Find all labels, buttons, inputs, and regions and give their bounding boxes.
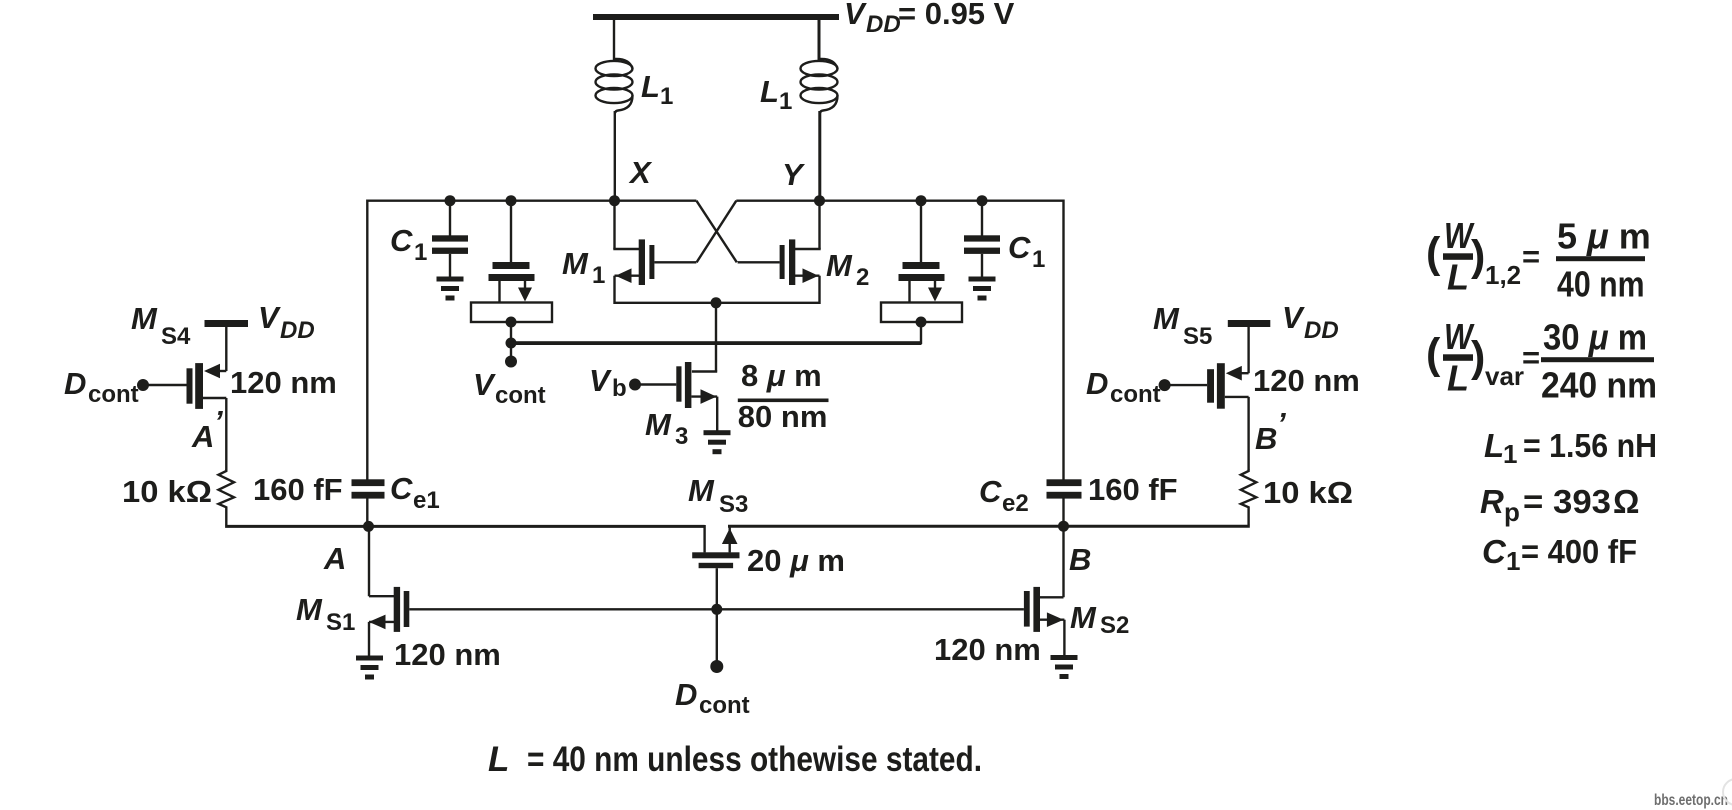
svg-text:8 μ m: 8 μ m xyxy=(741,358,822,393)
wire L1 left to node X xyxy=(614,111,616,200)
svg-text:): ) xyxy=(1471,232,1485,280)
svg-text:M: M xyxy=(688,473,715,508)
resistor 10k right xyxy=(1241,470,1257,526)
wire left border vertical (upper) xyxy=(366,200,368,481)
svg-text:B: B xyxy=(1069,542,1091,577)
svg-text:1: 1 xyxy=(414,239,427,266)
svg-text:cont: cont xyxy=(495,382,546,409)
svg-text:M: M xyxy=(826,248,853,283)
terminal dot Vb xyxy=(629,379,641,391)
svg-text:1: 1 xyxy=(1506,546,1520,576)
svg-text:V: V xyxy=(473,367,496,402)
svg-text:C: C xyxy=(390,223,413,258)
annotation Rp = 393 Ohm xyxy=(1480,483,1639,527)
svg-text:’: ’ xyxy=(1277,406,1286,441)
svg-text:): ) xyxy=(1471,333,1485,381)
svg-text:120 nm: 120 nm xyxy=(230,365,337,400)
label C1 right xyxy=(1008,230,1045,273)
svg-text:20 μ m: 20 μ m xyxy=(747,543,845,578)
svg-text:1,2: 1,2 xyxy=(1485,260,1521,290)
svg-text:bbs.eetop.cn: bbs.eetop.cn xyxy=(1654,792,1728,809)
svg-text:C: C xyxy=(979,474,1002,509)
power rail VDD xyxy=(593,14,839,20)
svg-text:=: = xyxy=(1522,340,1540,375)
label M1 xyxy=(562,246,605,289)
svg-text:1: 1 xyxy=(1503,439,1517,469)
junction dot Vcont wire xyxy=(506,338,517,349)
ground MS2 xyxy=(1051,655,1078,679)
wire varactor left to Vcont wire xyxy=(510,322,512,343)
label VDD MS4 xyxy=(258,300,315,344)
ground MS1 xyxy=(356,656,383,680)
wire node A to MS3 drain xyxy=(369,525,705,528)
wire common source of M1 M2 xyxy=(615,302,820,304)
wire Vcont stub xyxy=(510,343,512,357)
terminal dot Vcont xyxy=(505,356,517,368)
varactor right xyxy=(881,200,962,322)
svg-text:M: M xyxy=(1070,600,1097,635)
capacitor C1 left xyxy=(432,200,468,277)
wire resistor right to node B xyxy=(1064,525,1250,528)
svg-text:M: M xyxy=(562,246,589,281)
watermark circle fragment xyxy=(1723,779,1732,805)
wire cross-couple X to M2 gate xyxy=(696,201,736,263)
svg-text:V: V xyxy=(589,363,612,398)
svg-text:M: M xyxy=(296,592,323,627)
svg-text:D: D xyxy=(675,677,697,712)
svg-text:L: L xyxy=(1447,358,1469,399)
svg-text:var: var xyxy=(1485,361,1524,391)
svg-text:DD: DD xyxy=(1304,317,1339,344)
annotation W/L var equation xyxy=(1426,316,1657,406)
wire resistor left to node A xyxy=(225,525,369,528)
svg-text:=: = xyxy=(1522,239,1540,274)
svg-text:L: L xyxy=(1484,427,1504,464)
wire cross-couple Y to M1 gate xyxy=(697,201,737,263)
junction dot tail node xyxy=(711,297,722,308)
svg-text:120 nm: 120 nm xyxy=(934,632,1041,667)
label Vcont xyxy=(473,367,546,409)
wire Vcont horizontal (thick) xyxy=(510,341,922,345)
label MS4 xyxy=(131,301,191,350)
svg-text:S1: S1 xyxy=(326,609,355,636)
svg-text:1: 1 xyxy=(1032,246,1045,273)
svg-text:DD: DD xyxy=(866,11,901,38)
transistor M1 xyxy=(613,200,696,304)
transistor MS2 xyxy=(1024,526,1065,655)
svg-text:L: L xyxy=(488,740,509,779)
svg-text:’: ’ xyxy=(214,404,223,439)
inductor L1 left xyxy=(596,59,633,113)
svg-text:D: D xyxy=(64,366,86,401)
svg-text:2: 2 xyxy=(856,264,869,291)
svg-text:80 nm: 80 nm xyxy=(738,399,828,434)
label node B' xyxy=(1255,406,1286,456)
wire MS3 gate to Dcont terminal xyxy=(716,609,718,662)
svg-text:S3: S3 xyxy=(719,491,748,518)
svg-text:S2: S2 xyxy=(1100,612,1129,639)
svg-text:M: M xyxy=(131,301,158,336)
svg-text:(: ( xyxy=(1426,229,1441,277)
svg-text:V: V xyxy=(1282,300,1305,335)
label Ce1 xyxy=(390,471,440,514)
svg-text:160 fF: 160 fF xyxy=(253,472,343,507)
wire tail node to M3 drain xyxy=(715,303,717,372)
svg-text:S4: S4 xyxy=(161,323,191,350)
svg-text:10 kΩ: 10 kΩ xyxy=(1263,475,1353,510)
svg-text:1: 1 xyxy=(779,88,792,115)
svg-text:160 fF: 160 fF xyxy=(1088,472,1178,507)
svg-text:Y: Y xyxy=(782,157,806,192)
caption xyxy=(488,740,982,779)
svg-text:e1: e1 xyxy=(413,487,440,514)
varactor left xyxy=(471,200,552,322)
label VDD MS5 xyxy=(1282,300,1339,344)
node B junction dot xyxy=(1058,521,1069,532)
svg-text:C: C xyxy=(390,471,413,506)
svg-text:cont: cont xyxy=(88,381,139,408)
svg-text:= 1.56 nH: = 1.56 nH xyxy=(1523,427,1657,464)
ground C1 left xyxy=(437,277,464,301)
terminal dot Dcont MS5 xyxy=(1159,379,1171,391)
svg-text:L: L xyxy=(641,69,660,104)
svg-text:(: ( xyxy=(1426,330,1441,378)
svg-text:B: B xyxy=(1255,421,1277,456)
node X junction dot xyxy=(609,195,620,206)
wire L1 right to node Y xyxy=(818,111,821,200)
node Y junction dot xyxy=(814,195,825,206)
svg-text:p: p xyxy=(1504,497,1520,527)
wire left border vertical (lower) xyxy=(366,499,368,528)
label Dcont bottom xyxy=(675,677,750,719)
svg-text:= 40 nm unless othewise stated: = 40 nm unless othewise stated. xyxy=(527,740,982,779)
label M2 xyxy=(826,248,869,291)
wire tank rail right segment xyxy=(736,199,1063,201)
svg-text:240 nm: 240 nm xyxy=(1541,365,1657,406)
svg-text:1: 1 xyxy=(592,262,605,289)
svg-text:V: V xyxy=(844,0,867,31)
label Vb xyxy=(589,363,627,402)
svg-text:= 400 fF: = 400 fF xyxy=(1521,533,1637,570)
svg-text:X: X xyxy=(628,155,653,190)
junction dot C1 right xyxy=(977,195,988,206)
capacitor Ce1 xyxy=(352,479,385,498)
ground M3 xyxy=(704,430,731,454)
label L1 right xyxy=(760,74,792,115)
label MS1 xyxy=(296,592,355,636)
svg-text:C: C xyxy=(1008,230,1031,265)
wire varactor right to Vcont wire xyxy=(920,322,922,344)
node A junction dot xyxy=(363,521,374,532)
label MS3 xyxy=(688,473,748,518)
label 8 um / 80 nm xyxy=(738,358,829,434)
terminal dot Dcont bottom xyxy=(710,660,723,673)
junction dot C1 left xyxy=(445,195,456,206)
label VDD = 0.95 V xyxy=(844,0,1015,38)
label C1 left xyxy=(390,223,427,266)
transistor M2 xyxy=(738,200,821,304)
svg-text:10 kΩ: 10 kΩ xyxy=(122,474,212,509)
capacitor Ce2 xyxy=(1047,479,1082,498)
svg-text:Ω: Ω xyxy=(1613,483,1639,520)
wire right border vertical (lower) xyxy=(1062,499,1064,528)
inductor L1 right xyxy=(801,59,838,113)
label MS5 xyxy=(1153,301,1212,350)
junction dot MS3 gate xyxy=(711,604,722,615)
svg-text:e2: e2 xyxy=(1002,490,1029,517)
label node A' xyxy=(191,404,223,454)
svg-text:b: b xyxy=(612,375,627,402)
wire VDD rail to L1 right xyxy=(818,19,821,61)
svg-text:L: L xyxy=(1447,257,1469,298)
junction dot varactor left top xyxy=(506,195,517,206)
label Dcont MS4 xyxy=(64,366,139,408)
transistor MS5 (PMOS) xyxy=(1165,320,1271,470)
svg-text:1: 1 xyxy=(660,83,673,110)
terminal dot Dcont MS4 xyxy=(137,379,149,391)
label L1 left xyxy=(641,69,673,110)
svg-text:D: D xyxy=(1086,366,1108,401)
svg-text:cont: cont xyxy=(1110,381,1161,408)
annotation W/L 1,2 equation xyxy=(1426,215,1651,305)
svg-text:3: 3 xyxy=(675,423,688,450)
transistor MS3 (lateral) xyxy=(692,525,739,609)
annotation C1 = 400 fF xyxy=(1482,533,1637,576)
wire tank rail left segment xyxy=(367,199,696,201)
svg-text:120 nm: 120 nm xyxy=(1253,363,1360,398)
svg-text:V: V xyxy=(258,300,281,335)
wire right border vertical (upper) xyxy=(1062,200,1064,481)
wire MS3 source to node B xyxy=(728,525,1064,528)
svg-text:M: M xyxy=(1153,301,1180,336)
junction dot varactor right bottom xyxy=(916,317,927,328)
svg-text:30 μ m: 30 μ m xyxy=(1543,317,1647,358)
svg-text:= 393: = 393 xyxy=(1523,483,1611,520)
svg-text:= 0.95 V: = 0.95 V xyxy=(898,0,1015,31)
junction dot varactor right top xyxy=(916,195,927,206)
label Ce2 xyxy=(979,474,1029,517)
wire Dcont gate bus xyxy=(409,608,1024,610)
svg-text:5 μ m: 5 μ m xyxy=(1557,216,1651,257)
svg-text:A: A xyxy=(191,419,214,454)
label M3 xyxy=(645,407,688,450)
annotation L1 = 1.56 nH xyxy=(1484,427,1657,469)
transistor M3 xyxy=(635,362,717,431)
svg-text:40 nm: 40 nm xyxy=(1557,264,1645,305)
svg-text:DD: DD xyxy=(280,317,315,344)
svg-text:R: R xyxy=(1480,483,1504,520)
transistor MS4 (PMOS) xyxy=(143,320,248,470)
junction dot varactor left bottom xyxy=(506,317,517,328)
transistor MS1 xyxy=(369,526,410,656)
svg-text:120 nm: 120 nm xyxy=(394,637,501,672)
svg-text:L: L xyxy=(760,74,779,109)
resistor 10k left xyxy=(219,470,235,526)
capacitor C1 right xyxy=(964,200,1000,277)
svg-text:C: C xyxy=(1482,533,1507,570)
ground C1 right xyxy=(969,277,996,301)
label Dcont MS5 xyxy=(1086,366,1161,408)
svg-text:A: A xyxy=(323,541,346,576)
label MS2 xyxy=(1070,600,1129,639)
wire VDD rail to L1 left xyxy=(613,19,615,61)
svg-text:S5: S5 xyxy=(1183,323,1212,350)
svg-text:cont: cont xyxy=(699,692,750,719)
svg-text:M: M xyxy=(645,407,672,442)
